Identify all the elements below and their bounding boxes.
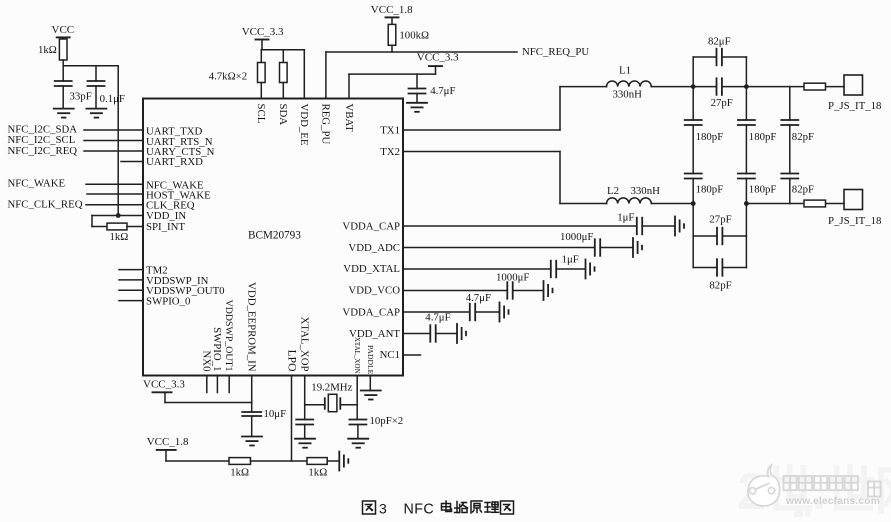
svg-text:P_JS_IT_18: P_JS_IT_18 — [828, 100, 881, 112]
wire pin NX0 stub — [206, 376, 208, 393]
power VCC_1.8 bar (bottom) — [157, 449, 176, 451]
pin label VDD_IN — [146, 210, 186, 222]
pin label VBAT — [343, 104, 355, 133]
pin label SWPIO_0 — [146, 296, 190, 308]
node NFC_REQ_PU — [522, 46, 589, 58]
label C18 value 4.7μF — [466, 292, 491, 304]
pin label VDDSWP_OUT0 — [146, 285, 225, 297]
svg-text:19.2MHz: 19.2MHz — [311, 381, 352, 393]
svg-text:TX1: TX1 — [380, 125, 400, 137]
capacitor C16 1μF — [551, 261, 556, 278]
wire C3 to ground — [416, 94, 418, 103]
capacitor C5 27pF — [717, 78, 722, 95]
wire R3 to pin SCL — [260, 83, 262, 99]
pin label NC1 — [380, 349, 400, 361]
resistor R9 1k — [307, 458, 327, 465]
wire rail VBAT — [349, 74, 436, 98]
pin label VDDSWP_OUT1 — [223, 300, 234, 372]
capacitor C12 27pF — [717, 228, 722, 245]
resistor R5 100k — [388, 24, 396, 45]
label C5 value 27pF — [711, 97, 733, 109]
svg-text:VCC: VCC — [52, 24, 75, 36]
label C17 value 1000μF — [496, 272, 529, 284]
wire rail REG_PU / NFC_REQ_PU — [326, 52, 517, 99]
capacitor C6 180pF — [685, 120, 702, 125]
power VCC_3.3 bar (VBAT) — [429, 66, 442, 74]
svg-text:1μF: 1μF — [562, 254, 579, 266]
wire pin VDDSWP_IN stub — [119, 279, 143, 281]
pin label XTAL_XOP — [299, 317, 311, 372]
capacitor C4 82uF — [717, 49, 722, 66]
power VCC_1.8 label (bottom) — [147, 436, 189, 448]
wire pin VDDA_CAP2 wire — [403, 311, 500, 313]
pin label VDD_ADC — [348, 242, 400, 254]
label C19 value 4.7μF — [425, 312, 450, 324]
wire NFC_I2C_SCL to pin UART_RTS_N — [84, 140, 143, 142]
power VCC_3.3 label (VBAT) — [417, 52, 459, 64]
pin label HOST_WAKE — [146, 189, 211, 201]
capacitor C9 180pF — [738, 174, 755, 179]
svg-text:82pF: 82pF — [792, 184, 814, 196]
ground C22 — [348, 439, 368, 448]
svg-text:SPI_INT: SPI_INT — [146, 221, 185, 233]
svg-text:VDDA_CAP: VDDA_CAP — [342, 220, 400, 232]
wire C3 top stub — [416, 74, 418, 88]
pin label NX0 — [201, 351, 213, 372]
pin label TX1 — [380, 125, 400, 137]
pin label UART_RXD — [146, 156, 203, 168]
svg-text:SDA: SDA — [277, 104, 289, 126]
wire pin UART_RXD stub — [121, 161, 143, 163]
pin label CLK_REQ — [146, 200, 195, 212]
svg-text:VDDA_CAP: VDDA_CAP — [342, 306, 400, 318]
junction VDD_IN node — [116, 213, 121, 218]
wire C1 to ground — [62, 86, 64, 109]
svg-text:1μF: 1μF — [617, 211, 634, 223]
svg-text:33pF: 33pF — [70, 90, 92, 102]
pin label UART_RTS_N — [146, 136, 213, 148]
label C16 value 1μF — [562, 254, 579, 266]
wire C2 top to node rail — [95, 66, 97, 81]
capacitor C22 10pF — [349, 420, 366, 425]
label C10 value 82pF — [792, 131, 814, 143]
ground C3 — [407, 103, 427, 112]
wire crystal left wire — [305, 404, 325, 406]
svg-text:1000μF: 1000μF — [496, 272, 529, 284]
svg-text:1000μF: 1000μF — [560, 231, 593, 243]
svg-text:1kΩ: 1kΩ — [38, 44, 57, 56]
capacitor C10 82pF — [781, 120, 798, 125]
wire column 82pF branch — [789, 87, 791, 204]
svg-text:4.7μF: 4.7μF — [430, 85, 455, 97]
pin label SPI_INT — [146, 221, 185, 233]
wire NFC_WAKE to pin NFC_WAKE — [86, 183, 143, 185]
pin label NFC_WAKE — [146, 179, 204, 191]
resistor R4 4.7k — [280, 63, 288, 83]
svg-text:180pF: 180pF — [749, 184, 777, 196]
svg-text:BCM20793: BCM20793 — [248, 230, 301, 242]
label J2 P_JS_IT_18 — [828, 215, 881, 227]
label C4 value 82uF — [708, 36, 731, 48]
svg-text:100kΩ: 100kΩ — [399, 29, 429, 41]
svg-text:L2: L2 — [607, 185, 619, 197]
power VCC label — [52, 24, 75, 36]
svg-text:NFC_CLK_REQ: NFC_CLK_REQ — [8, 199, 83, 211]
svg-text:4.7kΩ×2: 4.7kΩ×2 — [209, 70, 247, 82]
svg-text:0.1μF: 0.1μF — [100, 93, 125, 105]
svg-text:180pF: 180pF — [696, 131, 724, 143]
label R8 value 1kOhm — [230, 467, 249, 479]
svg-text:VDD_EE: VDD_EE — [298, 104, 310, 146]
wire node rail to VDD_IN drop — [63, 66, 118, 216]
power VCC_3.3 label (bottom) — [143, 378, 185, 390]
label C2 value 0.1uF — [100, 93, 125, 105]
svg-text:SWPIO_1: SWPIO_1 — [211, 327, 223, 371]
pin label LPO — [285, 350, 298, 372]
resistor R3 4.7k — [258, 63, 266, 83]
svg-text:NC1: NC1 — [380, 349, 400, 361]
junction node D — [744, 201, 749, 206]
pin label SCL — [255, 104, 267, 124]
svg-text:27pF: 27pF — [711, 97, 733, 109]
label C8 value 180pF — [749, 131, 777, 143]
wire bracket rail 27pF — [693, 235, 746, 237]
capacitor C2 0.1uF — [88, 81, 105, 86]
label R3 R4 value 4.7kOhm x2 — [209, 70, 247, 82]
wire rail VCC_3.3 to VDD_EE — [261, 50, 304, 99]
power VCC bar — [57, 37, 70, 39]
crystal Y1 19.2MHz — [325, 394, 341, 411]
svg-text:NFC_REQ_PU: NFC_REQ_PU — [522, 46, 589, 58]
wire pin TX2 wire — [403, 152, 607, 204]
svg-text:NFC: NFC — [404, 502, 435, 518]
label R5 value 100kOhm — [399, 29, 429, 41]
wire C20 to ground — [251, 416, 253, 437]
wire R4 top stub — [282, 50, 284, 63]
svg-text:L1: L1 — [619, 65, 631, 77]
label C21 C22 value 10pFx2 — [370, 415, 404, 427]
svg-text:330nH: 330nH — [631, 185, 661, 197]
ground VDD_VCO — [544, 281, 553, 300]
label Y1 value 19.2MHz — [311, 381, 352, 393]
power VCC_3.3 bar (bottom) — [153, 391, 172, 393]
wire pin VDD_EEPROM_IN wire — [251, 376, 253, 413]
svg-text:TX2: TX2 — [380, 146, 400, 158]
connector J1 P_JS_IT_18 — [844, 75, 863, 95]
wire pin LPO wire — [291, 376, 293, 462]
wire 82uF branch — [693, 57, 746, 87]
wire pin VDD_ANT wire — [403, 333, 457, 335]
svg-text:330nH: 330nH — [613, 89, 643, 101]
label L2 — [607, 185, 619, 197]
label L2 value 330nH — [631, 185, 661, 197]
svg-text:VCC_3.3: VCC_3.3 — [242, 26, 284, 38]
capacitor C19 4.7μF — [430, 325, 435, 342]
svg-text:VDD_VCO: VDD_VCO — [348, 284, 400, 296]
svg-text:180pF: 180pF — [696, 184, 724, 196]
wire R4 to pin SDA — [282, 83, 284, 99]
inductor L1 330nH — [607, 81, 652, 87]
ground VDDA_CAP2 — [500, 303, 509, 322]
wire bracket sides — [693, 204, 746, 268]
label L1 — [619, 65, 631, 77]
wire C2 to ground — [95, 86, 97, 109]
pin label VDD_ANT — [349, 328, 400, 340]
ground PADDLE — [361, 391, 381, 400]
svg-text:1kΩ: 1kΩ — [230, 467, 249, 479]
label R1 value 1kΩ — [38, 44, 57, 56]
wire R2 to pin SPI_INT — [127, 226, 143, 228]
pin label PADDLE — [366, 345, 375, 375]
pin label VDD_EEPROM_IN — [246, 282, 258, 372]
wire rail VCC_1.8 — [166, 450, 229, 461]
ground VDD_XTAL — [586, 260, 595, 279]
junction node A — [691, 84, 696, 89]
resistor R8 1k — [229, 458, 251, 465]
node NFC_I2C_SDA — [8, 124, 78, 136]
label C15 value 1000μF — [560, 231, 593, 243]
capacitor C14 1μF — [637, 218, 642, 235]
wire R1 bottom to node — [62, 60, 64, 81]
capacitor C3 4.7uF — [409, 89, 426, 94]
svg-text:3: 3 — [379, 501, 387, 517]
wire column node B to D — [745, 87, 747, 204]
capacitor C8 180pF — [738, 120, 755, 125]
svg-text:www.elecfans.com: www.elecfans.com — [785, 496, 880, 507]
svg-text:VDD_XTAL: VDD_XTAL — [343, 263, 400, 275]
pin label VDDA_CAP — [342, 220, 400, 232]
junction node C — [691, 201, 696, 206]
svg-text:VCC_3.3: VCC_3.3 — [417, 52, 459, 64]
pin label SDA — [277, 104, 289, 126]
svg-text:VCC_1.8: VCC_1.8 — [147, 436, 189, 448]
wire node D to connector J2 — [746, 203, 844, 205]
node NFC_I2C_SCL — [8, 134, 76, 146]
pin label UART_TXD — [146, 126, 203, 138]
resistor R1 1k — [59, 39, 67, 60]
power VCC_3.3 label (top) — [242, 26, 284, 38]
node NFC_CLK_REQ — [8, 199, 83, 211]
svg-text:LPO: LPO — [285, 350, 298, 372]
svg-text:XTAL_XON: XTAL_XON — [353, 337, 361, 374]
capacitor C17 1000μF — [507, 282, 512, 299]
pin label VDD_VCO — [348, 284, 400, 296]
wire R5 bottom to REG_PU rail — [391, 45, 393, 52]
svg-text:SCL: SCL — [255, 104, 267, 124]
wire L1 to node A — [651, 86, 693, 88]
pin label TX2 — [380, 146, 400, 158]
label C11 value 82pF — [792, 184, 814, 196]
wire rail R8 to R9 — [251, 460, 308, 462]
pin label VDDSWP_IN — [146, 275, 209, 287]
wire node B to connector J1 — [746, 86, 844, 88]
svg-text:82pF: 82pF — [709, 279, 731, 291]
svg-text:VBAT: VBAT — [343, 104, 355, 133]
pin label XTAL_XON — [353, 337, 361, 374]
ground VDD_ANT — [457, 324, 466, 343]
label C13 value 82pF — [709, 279, 731, 291]
watermark elecfans logo — [737, 463, 891, 522]
capacitor C7 180pF — [685, 174, 702, 179]
svg-text:VDD_EEPROM_IN: VDD_EEPROM_IN — [246, 282, 258, 372]
ground C21 — [295, 439, 315, 448]
label C3 value 4.7uF — [430, 85, 455, 97]
svg-text:27pF: 27pF — [709, 213, 731, 225]
wire pin SWPIO_0 stub — [119, 300, 143, 302]
resistor R6 — [804, 83, 826, 90]
wire pin VDDSWP_OUT1 stub — [228, 376, 230, 393]
caption 图3 NFC电路原理图 — [363, 501, 514, 518]
wire pin HOST_WAKE stub — [87, 193, 143, 195]
IC U1 BCM20793 body — [143, 99, 403, 376]
node NFC_WAKE — [8, 178, 66, 190]
wire pin VDD_XTAL wire — [403, 268, 586, 270]
ground VDDA_CAP — [675, 217, 684, 236]
svg-text:180pF: 180pF — [749, 131, 777, 143]
label C14 value 1μF — [617, 211, 634, 223]
wire pin NC1 stub — [403, 354, 421, 356]
label R9 value 1kOhm — [308, 467, 327, 479]
capacitor C13 82pF — [717, 259, 722, 276]
junction node B — [744, 84, 749, 89]
wire pin VDD_VCO wire — [403, 290, 544, 292]
wire NFC_CLK_REQ to pin CLK_REQ — [86, 204, 143, 206]
wire rail VCC_3.3 bottom — [165, 392, 252, 402]
power VCC_1.8 bar (top) — [386, 17, 399, 24]
svg-text:82μF: 82μF — [708, 36, 731, 48]
wire pin TM2 stub — [119, 269, 143, 271]
svg-text:NFC_I2C_REQ: NFC_I2C_REQ — [8, 145, 78, 157]
wire bracket rail 82pF — [693, 267, 746, 269]
svg-text:VDD_ADC: VDD_ADC — [348, 242, 400, 254]
svg-text:REG_PU: REG_PU — [320, 104, 332, 145]
svg-text:NFC_WAKE: NFC_WAKE — [8, 178, 66, 190]
resistor R2 1k — [107, 223, 127, 230]
inductor L2 330nH — [607, 198, 652, 204]
svg-text:1kΩ: 1kΩ — [110, 231, 129, 243]
label C1 value 33pF — [70, 90, 92, 102]
label C7 value 180pF — [696, 184, 724, 196]
wire 27pF wire A-B — [693, 86, 746, 88]
capacitor C18 4.7μF — [470, 304, 475, 321]
svg-text:P_JS_IT_18: P_JS_IT_18 — [828, 215, 881, 227]
power VCC_1.8 label (top) — [371, 4, 413, 16]
ground C2 — [86, 109, 106, 118]
wire L2 to node C — [651, 203, 693, 205]
svg-text:4.7μF: 4.7μF — [466, 292, 491, 304]
label R2 value 1kΩ — [110, 231, 129, 243]
pin label VDDA_CAP — [342, 306, 400, 318]
svg-text:10pF×2: 10pF×2 — [370, 415, 404, 427]
capacitor C1 33pF — [55, 81, 72, 86]
svg-text:VCC_3.3: VCC_3.3 — [143, 378, 185, 390]
capacitor C15 1000μF — [595, 239, 600, 256]
wire R3 top stub — [260, 50, 262, 63]
wire crystal right wire — [340, 404, 357, 406]
capacitor C21 10pF — [296, 420, 313, 425]
wire column node A to C — [692, 87, 694, 204]
svg-text:NX0: NX0 — [201, 351, 213, 372]
label J1 P_JS_IT_18 — [828, 100, 881, 112]
svg-text:SWPIO_0: SWPIO_0 — [146, 296, 190, 308]
svg-text:XTAL_XOP: XTAL_XOP — [299, 317, 311, 372]
wire pin VDDA_CAP wire — [403, 225, 675, 227]
ground R9 — [339, 452, 348, 471]
svg-text:UART_RXD: UART_RXD — [146, 156, 203, 168]
pin label VDD_EE — [298, 104, 310, 146]
svg-text:PADDLE: PADDLE — [366, 345, 375, 375]
label L1 value 330nH — [613, 89, 643, 101]
svg-text:82pF: 82pF — [792, 131, 814, 143]
ground C1 — [54, 109, 74, 118]
resistor R7 — [804, 200, 826, 207]
pin label VDD_XTAL — [343, 263, 400, 275]
svg-text:10μF: 10μF — [264, 408, 287, 420]
wire pin TX1 wire — [403, 87, 607, 130]
wire C22 to ground — [357, 425, 359, 439]
capacitor C11 82pF — [781, 174, 798, 179]
wire pin VDD_IN wire — [92, 216, 143, 227]
wire pin VDD_ADC wire — [403, 247, 633, 249]
ground C20 — [242, 437, 262, 446]
svg-text:VCC_1.8: VCC_1.8 — [371, 4, 413, 16]
wire NFC_I2C_SDA to pin UART_TXD — [84, 129, 143, 131]
wire pin PADDLE stub — [369, 376, 371, 391]
connector J2 P_JS_IT_18 — [844, 190, 863, 210]
label U1 BCM20793 — [248, 230, 301, 242]
wire NFC_I2C_REQ to pin UARY_CTS_N — [84, 150, 143, 152]
label C20 value 10uF — [264, 408, 287, 420]
svg-text:VDDSWP_OUT1: VDDSWP_OUT1 — [223, 300, 234, 372]
label C6 value 180pF — [696, 131, 724, 143]
wire pin XTAL_XOP wire — [304, 376, 306, 420]
ground VDD_ADC — [633, 238, 642, 257]
wire R9 to ground — [327, 460, 339, 462]
pin label REG_PU — [320, 104, 332, 145]
svg-text:1kΩ: 1kΩ — [308, 467, 327, 479]
wire pin XTAL_XON wire — [356, 376, 358, 420]
label C12 value 27pF — [709, 213, 731, 225]
power VCC_3.3 bar (top) — [256, 40, 269, 50]
wire pin SWPIO_1 stub — [216, 376, 218, 393]
pin label TM2 — [146, 264, 168, 276]
node NFC_I2C_REQ — [8, 145, 78, 157]
pin label SWPIO_1 — [211, 327, 223, 371]
pin label UARY_CTS_N — [146, 146, 215, 158]
wire C21 to ground — [304, 425, 306, 439]
wire pin VDDSWP_OUT0 stub — [119, 289, 143, 291]
svg-text:4.7μF: 4.7μF — [425, 312, 450, 324]
capacitor C20 10uF — [242, 412, 261, 416]
label C9 value 180pF — [749, 184, 777, 196]
